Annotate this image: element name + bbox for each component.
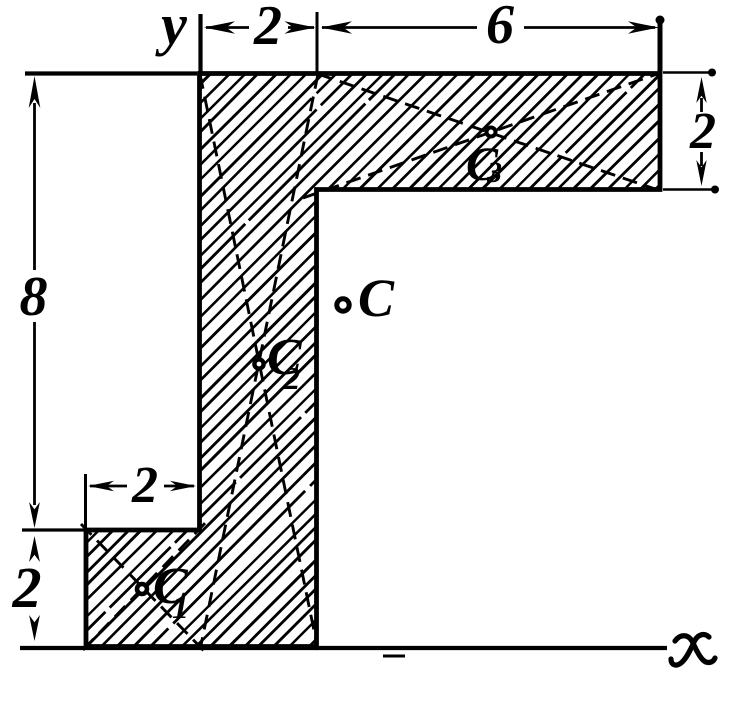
svg-text:3: 3 xyxy=(486,156,502,189)
svg-text:2: 2 xyxy=(131,457,158,514)
y-axis xyxy=(198,14,202,76)
centroid C1 marker xyxy=(137,584,147,594)
stray tick below x-axis xyxy=(383,655,405,658)
svg-text:8: 8 xyxy=(20,266,48,328)
dimension 8 (left, overall height) xyxy=(25,71,197,75)
overall centroid C marker xyxy=(337,299,349,311)
dashed diagonals of vertical web locating C2 xyxy=(200,74,318,650)
svg-text:C: C xyxy=(358,268,395,328)
extension line at square top xyxy=(22,528,90,531)
x-axis xyxy=(20,646,667,650)
right edge extension above flange xyxy=(658,19,663,73)
extension line between 2 and 6 dimensions xyxy=(316,12,319,72)
svg-text:1: 1 xyxy=(172,589,189,626)
dashed diagonals of bottom square locating C1 xyxy=(81,519,209,655)
dimension 2 (left, square height) xyxy=(29,536,40,562)
dimension 2 (square width) xyxy=(84,474,87,528)
svg-text:2: 2 xyxy=(253,0,282,57)
dimension 6 (top, flange width) xyxy=(322,26,655,29)
x-axis label x xyxy=(671,635,715,666)
centroid C2 marker xyxy=(254,359,263,368)
svg-text:2: 2 xyxy=(12,555,42,620)
svg-text:2: 2 xyxy=(283,360,300,396)
dimension 2 (right, flange thickness) xyxy=(663,71,712,74)
Z-section outline xyxy=(86,74,660,647)
centroid C3 marker xyxy=(487,128,496,137)
svg-text:6: 6 xyxy=(486,0,514,56)
dashed diagonals of top flange locating C3 xyxy=(303,73,661,198)
svg-text:2: 2 xyxy=(689,103,716,160)
dimension 2 (top, web width) xyxy=(206,26,314,29)
